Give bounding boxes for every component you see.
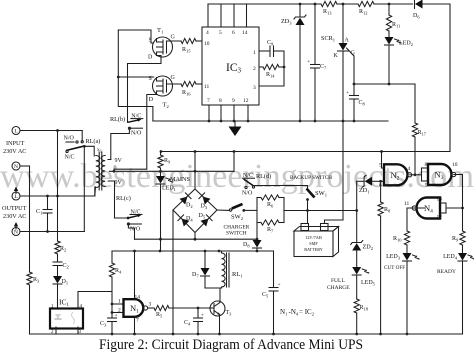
diode D7 — [192, 251, 210, 288]
thyristor SCR1 — [321, 4, 356, 59]
wire D8 to 12V rail — [256, 248, 258, 251]
relay coil RL1 — [222, 251, 243, 288]
wire T3 base — [211, 307, 214, 309]
capacitor C1 — [36, 196, 52, 232]
svg-text:G: G — [171, 75, 176, 81]
svg-text:D8: D8 — [243, 242, 250, 249]
IC3 pin numbers bottom — [207, 98, 249, 104]
wire — [57, 266, 59, 277]
LED LED2 — [385, 37, 413, 47]
svg-text:8: 8 — [219, 98, 222, 104]
svg-text:LED2: LED2 — [399, 41, 413, 48]
zener diode ZD1 — [357, 175, 372, 194]
IC1 pin numbers — [51, 305, 83, 336]
wire SW1 to battery plus — [306, 200, 309, 224]
wire IC3 pin6 — [233, 4, 235, 27]
wire T2 drain — [114, 95, 157, 172]
svg-text:LED3: LED3 — [386, 254, 401, 261]
svg-text:RL(a): RL(a) — [86, 138, 101, 145]
svg-text:+: + — [278, 282, 281, 288]
wire R8 to bottom bus — [380, 216, 382, 334]
svg-text:+: + — [307, 59, 310, 65]
wire N3 inputs — [422, 168, 429, 181]
wire IC1 pin3 — [77, 327, 79, 334]
svg-text:C3: C3 — [100, 321, 107, 328]
label 0 — [114, 166, 117, 172]
wire N4 output to R10 — [407, 208, 425, 231]
wire L to RLa N/O — [81, 131, 83, 142]
capacitor C2 — [53, 262, 69, 270]
IC3 pin numbers left — [204, 41, 210, 90]
wire R6R7 right bracket — [283, 198, 285, 223]
svg-text:C9: C9 — [267, 40, 274, 47]
svg-text:9: 9 — [425, 183, 428, 189]
wire IC3 pin9 — [233, 105, 235, 121]
resistor R12 — [358, 1, 374, 15]
LED LED3 — [384, 253, 420, 271]
wire — [356, 251, 358, 268]
svg-text:www.bestengineeringprojects.co: www.bestengineeringprojects.com — [0, 158, 474, 195]
label RL(a) — [86, 138, 101, 145]
svg-text:C7: C7 — [320, 64, 327, 71]
transistor T2 (MOSFET) — [149, 75, 176, 109]
svg-text:G: G — [171, 35, 176, 41]
LED LED4 — [437, 253, 474, 275]
resistor R15 — [181, 38, 196, 53]
svg-text:D: D — [148, 55, 153, 61]
diode D5 — [199, 213, 213, 226]
resistor R9 — [158, 152, 171, 169]
svg-text:4: 4 — [206, 30, 209, 36]
wire IC3 pin7 — [208, 105, 210, 121]
wire bridge right to SW2 — [217, 209, 229, 211]
wire R11 column — [388, 4, 390, 84]
svg-text:R8: R8 — [384, 207, 391, 214]
wire primary bottom to output L — [94, 187, 97, 196]
wire coil bottom to T3 collector — [205, 288, 222, 302]
capacitor C9 — [259, 40, 284, 57]
wire SW2 to R6R7 — [244, 209, 257, 211]
svg-text:N/C: N/C — [65, 155, 75, 161]
wire N1 pin7 to bus — [133, 319, 136, 336]
svg-text:D7: D7 — [192, 272, 199, 279]
wire R17 column — [414, 137, 416, 175]
label CHARGER SWITCH — [224, 224, 250, 236]
wire IC1 pin4 — [78, 292, 112, 310]
wire R5 to T3 base — [169, 307, 211, 310]
svg-text:R5: R5 — [156, 312, 163, 319]
wire IC3 pin12 — [247, 105, 249, 121]
svg-text:C5: C5 — [262, 292, 269, 299]
resistor R16 — [181, 81, 196, 96]
svg-text:SWITCH: SWITCH — [226, 230, 247, 236]
wire R4 to N1 inputs — [111, 277, 114, 318]
label RL(d) — [256, 173, 271, 180]
svg-text:D4: D4 — [186, 216, 193, 223]
relay contact RL(a) — [64, 136, 86, 161]
resistor R11 — [386, 15, 400, 31]
wire T2 source — [118, 76, 154, 78]
svg-text:N/C: N/C — [243, 173, 253, 179]
op-amp U2 IC1 box — [50, 298, 83, 329]
svg-text:N/O: N/O — [131, 131, 142, 137]
svg-text:BATTERY: BATTERY — [304, 247, 323, 252]
wire N2 output junction — [410, 173, 422, 176]
wire — [57, 254, 59, 262]
svg-text:A: A — [345, 38, 350, 44]
resistor R10 — [393, 231, 410, 245]
wire — [462, 245, 464, 253]
wire ZD2 column top — [356, 181, 358, 242]
wire IC3 pin3 feedback — [259, 51, 285, 86]
svg-text:D5: D5 — [199, 213, 206, 220]
svg-text:K: K — [334, 53, 339, 59]
svg-text:R13: R13 — [323, 9, 332, 16]
diode D8 — [243, 240, 262, 249]
svg-text:C2: C2 — [63, 263, 69, 270]
wire R15 to IC3 pin10 — [196, 40, 202, 42]
wire right border — [449, 4, 451, 152]
wire SCR cathode column — [342, 51, 345, 220]
svg-text:R11: R11 — [392, 22, 400, 29]
svg-text:11: 11 — [204, 84, 210, 90]
svg-text:R10: R10 — [393, 236, 402, 243]
svg-text:11: 11 — [404, 201, 410, 207]
wire bottom ground bus — [30, 333, 463, 336]
label 9V top — [115, 158, 123, 164]
wire node L to R2 column — [57, 131, 59, 242]
svg-text:R16: R16 — [182, 90, 191, 97]
wire RLc NO line — [135, 238, 258, 240]
caption — [99, 337, 363, 353]
svg-text:3: 3 — [253, 85, 256, 91]
wire C7 column — [314, 4, 316, 121]
resistor R6 — [257, 195, 284, 209]
svg-text:SMF: SMF — [309, 241, 318, 246]
wire D8 branch — [256, 223, 259, 241]
wire bridge diamond — [173, 189, 217, 233]
wire ground bus — [153, 120, 388, 123]
svg-text:READY: READY — [437, 269, 456, 275]
svg-text:8: 8 — [425, 162, 428, 168]
wire IC3 pin5 — [220, 4, 222, 27]
svg-text:LED1: LED1 — [162, 186, 176, 193]
wire sources column — [117, 30, 153, 121]
capacitor C4 — [184, 308, 204, 335]
svg-text:4: 4 — [408, 166, 411, 172]
wire R16 to IC3 pin11 — [196, 83, 202, 85]
svg-text:R14: R14 — [266, 72, 275, 79]
wire input N — [20, 165, 30, 167]
wire bridge top corner — [194, 152, 197, 190]
resistor R3 — [27, 272, 40, 285]
svg-text:1: 1 — [118, 299, 121, 305]
wire RL(b) N/O to transformer tap — [111, 128, 130, 159]
svg-text:R18: R18 — [360, 305, 369, 312]
label N1-N4 = IC2 — [280, 308, 314, 317]
diode D2 — [180, 193, 193, 209]
zener diode ZD3 — [281, 15, 306, 26]
wire input L — [20, 129, 82, 132]
svg-text:7: 7 — [136, 318, 139, 324]
svg-text:BACKUP SWITCH: BACKUP SWITCH — [290, 175, 332, 181]
logic gate N4 — [404, 197, 442, 221]
svg-text:N/C: N/C — [131, 113, 141, 119]
switch SW2 — [229, 204, 245, 221]
op-amp U1 IC3 box — [202, 27, 259, 105]
svg-text:+: + — [201, 313, 204, 319]
svg-text:14: 14 — [242, 30, 248, 36]
resistor R14 — [259, 64, 284, 78]
svg-text:230V AC: 230V AC — [3, 213, 26, 220]
wire IC3 pin4 — [207, 4, 209, 27]
LED LED1 MAINS — [156, 176, 190, 192]
svg-text:R9: R9 — [452, 236, 459, 243]
svg-text:9V: 9V — [115, 180, 123, 186]
svg-text:CUT OFF: CUT OFF — [384, 265, 405, 271]
capacitor C3 — [100, 313, 118, 335]
diode D1 — [53, 276, 68, 286]
LED LED5 full charge — [327, 267, 376, 291]
svg-text:D6: D6 — [413, 13, 420, 20]
label BACKUP SWITCH — [290, 175, 332, 181]
wire N1 pin14 to rail — [134, 251, 136, 298]
wire secondary bottom tap — [108, 181, 128, 218]
capacitor C5 — [262, 282, 281, 335]
wire T1 drain — [128, 56, 162, 123]
diode D6 — [413, 0, 423, 20]
wire — [406, 245, 408, 253]
diode D4 — [178, 215, 193, 227]
wire 12V rail — [112, 250, 274, 285]
svg-text:LED5: LED5 — [361, 280, 376, 287]
transistor T1 (MOSFET) — [148, 27, 176, 61]
wire bridge bottom corner — [194, 233, 197, 241]
wire relay RLa NC to output N — [83, 146, 85, 231]
svg-text:7: 7 — [207, 98, 210, 104]
svg-text:R15: R15 — [182, 47, 191, 54]
svg-text:D3: D3 — [201, 204, 208, 211]
svg-text:CHARGE: CHARGE — [327, 285, 350, 291]
svg-text:5: 5 — [379, 163, 382, 169]
svg-text:N/C: N/C — [131, 209, 141, 215]
logic gate N3 — [425, 162, 458, 189]
svg-text:Figure 2: Circuit Diagram of A: Figure 2: Circuit Diagram of Advance Min… — [99, 337, 363, 353]
svg-text:1: 1 — [253, 50, 256, 56]
wire secondary centre tap 0V line — [110, 170, 235, 173]
resistor R8 — [378, 181, 391, 216]
wire middle rail — [160, 150, 450, 171]
battery BT1 12V/7AH — [294, 224, 339, 257]
wire charger to battery and ZD2 node — [284, 209, 358, 212]
svg-text:R7: R7 — [267, 227, 274, 234]
wire N1 pin1 — [112, 299, 124, 305]
svg-text:R17: R17 — [418, 130, 427, 137]
wire LED1 to 12V rail — [159, 184, 162, 251]
svg-text:R12: R12 — [359, 9, 368, 16]
svg-text:2: 2 — [118, 308, 121, 314]
svg-text:INPUT: INPUT — [6, 140, 24, 147]
svg-text:R4: R4 — [115, 268, 122, 275]
svg-text:N/O: N/O — [242, 191, 253, 197]
svg-text:R3: R3 — [33, 277, 40, 284]
output terminal L — [12, 187, 20, 201]
svg-text:12: 12 — [243, 98, 249, 104]
svg-text:N: N — [14, 164, 18, 170]
svg-text:D: D — [149, 97, 154, 103]
svg-text:x1: x1 — [97, 147, 102, 154]
label 9V bottom — [115, 180, 123, 186]
resistor R18 — [354, 299, 369, 313]
resistor R5 — [154, 305, 169, 318]
wire RLd to SW1 — [253, 186, 308, 190]
resistor R19 — [452, 231, 465, 245]
transformer X1 primary winding — [96, 156, 100, 188]
transistor T3 — [210, 301, 232, 317]
svg-text:10: 10 — [204, 41, 210, 47]
ground — [229, 121, 242, 136]
wire N2 pin5 — [382, 152, 385, 169]
svg-text:OUTPUT: OUTPUT — [2, 205, 27, 212]
label RL(b) — [110, 116, 125, 123]
svg-text:T3: T3 — [226, 310, 233, 317]
relay contact RL(b) — [128, 113, 143, 136]
svg-text:FULL: FULL — [331, 278, 345, 284]
svg-text:R6: R6 — [267, 202, 274, 209]
svg-text:C4: C4 — [184, 320, 191, 327]
wire R9 to 0V line — [159, 168, 162, 176]
svg-text:RL(c): RL(c) — [116, 195, 131, 202]
svg-text:R2: R2 — [60, 246, 66, 253]
svg-text:C8: C8 — [359, 100, 366, 107]
output terminal N — [12, 222, 20, 236]
logic gate N1 — [124, 295, 152, 324]
wire ZD1 to N2 pin6 — [372, 180, 384, 183]
wire ZD3 column — [299, 4, 301, 121]
svg-text:5: 5 — [219, 30, 222, 36]
IC3 pin numbers right — [253, 50, 256, 91]
wire secondary top tap — [108, 159, 111, 161]
wire battery minus — [325, 220, 344, 224]
svg-text:R9: R9 — [164, 158, 171, 165]
label OUTPUT 230V AC — [2, 205, 27, 220]
svg-text:+: + — [115, 313, 118, 319]
relay contact RL(d) — [242, 173, 255, 197]
svg-text:6: 6 — [379, 183, 382, 189]
transformer X1 secondary winding — [101, 156, 105, 187]
wire LED3 to bus — [406, 261, 408, 334]
wire output L row — [20, 187, 95, 197]
svg-text:C1: C1 — [36, 209, 42, 216]
svg-text:D2: D2 — [186, 203, 193, 210]
svg-text:9V: 9V — [115, 158, 123, 164]
resistor R17 — [412, 123, 426, 137]
label RL(c) — [116, 195, 131, 202]
wire top supply bus — [208, 3, 450, 6]
resistor R4 — [109, 251, 122, 277]
wire N3 output — [454, 175, 464, 232]
svg-text:9: 9 — [232, 98, 235, 104]
svg-text:D1: D1 — [62, 279, 69, 286]
wire SCR gate line — [353, 56, 415, 123]
zener diode ZD2 — [351, 241, 373, 252]
svg-text:2: 2 — [253, 66, 256, 72]
resistor R2 — [55, 241, 66, 254]
wire node N to R3 column — [29, 166, 31, 272]
transformer X1 core — [99, 152, 102, 190]
wire D1 to IC1 pin1 — [57, 284, 59, 309]
label INPUT 230V AC — [3, 140, 26, 155]
svg-text:10: 10 — [452, 162, 458, 168]
svg-text:N/O: N/O — [130, 227, 141, 233]
label X1 — [97, 147, 102, 154]
wire R18 to bus — [356, 313, 358, 334]
wire N4 inputs — [440, 203, 463, 213]
wire R6R7 left bracket — [256, 198, 258, 223]
wire bridge left corner column — [172, 210, 174, 334]
capacitor C8 — [346, 84, 366, 122]
svg-text:RL(b): RL(b) — [110, 116, 125, 123]
wire R3 to ground bus — [29, 285, 31, 334]
svg-text:RL(d): RL(d) — [256, 173, 271, 180]
logic gate N2 — [379, 163, 412, 189]
svg-text:12: 12 — [437, 215, 443, 221]
wire N1 output — [148, 307, 154, 309]
resistor R13 — [321, 1, 337, 15]
svg-text:MAINS: MAINS — [170, 176, 190, 183]
svg-text:12V/7AH: 12V/7AH — [305, 235, 322, 240]
wire IC3 pin14 — [246, 4, 248, 27]
switch SW1 — [306, 189, 327, 201]
wire IC3 pin8 — [220, 105, 222, 121]
wire T3 emitter — [218, 315, 221, 336]
wire T1 source — [118, 30, 153, 43]
watermark — [0, 158, 474, 195]
wire — [356, 275, 358, 299]
svg-text:N: N — [14, 230, 18, 236]
svg-text:3: 3 — [149, 302, 152, 308]
resistor R7 — [257, 220, 284, 234]
wire T2 gate — [167, 83, 182, 85]
wire IC1 pin2 — [55, 327, 57, 334]
svg-text:+: + — [346, 90, 349, 96]
relay contact RL(c) — [127, 209, 142, 239]
input terminal L — [12, 127, 20, 135]
svg-text:LED4: LED4 — [443, 254, 458, 261]
svg-text:230V AC: 230V AC — [3, 148, 26, 155]
wire LED4 to bus — [462, 261, 464, 334]
svg-text:6: 6 — [232, 30, 235, 36]
wire RLa pole to transformer primary — [84, 146, 94, 156]
svg-text:N/O: N/O — [64, 136, 75, 142]
svg-text:14: 14 — [135, 295, 141, 301]
svg-text:13: 13 — [437, 197, 443, 203]
wire N1 pin2 — [112, 308, 124, 314]
capacitor C7 — [307, 59, 327, 71]
diode D3 — [199, 193, 211, 210]
wire T1 gate — [167, 40, 182, 42]
wire output N row — [20, 230, 84, 233]
IC3 pin numbers top — [206, 30, 248, 36]
input terminal N — [12, 162, 20, 170]
